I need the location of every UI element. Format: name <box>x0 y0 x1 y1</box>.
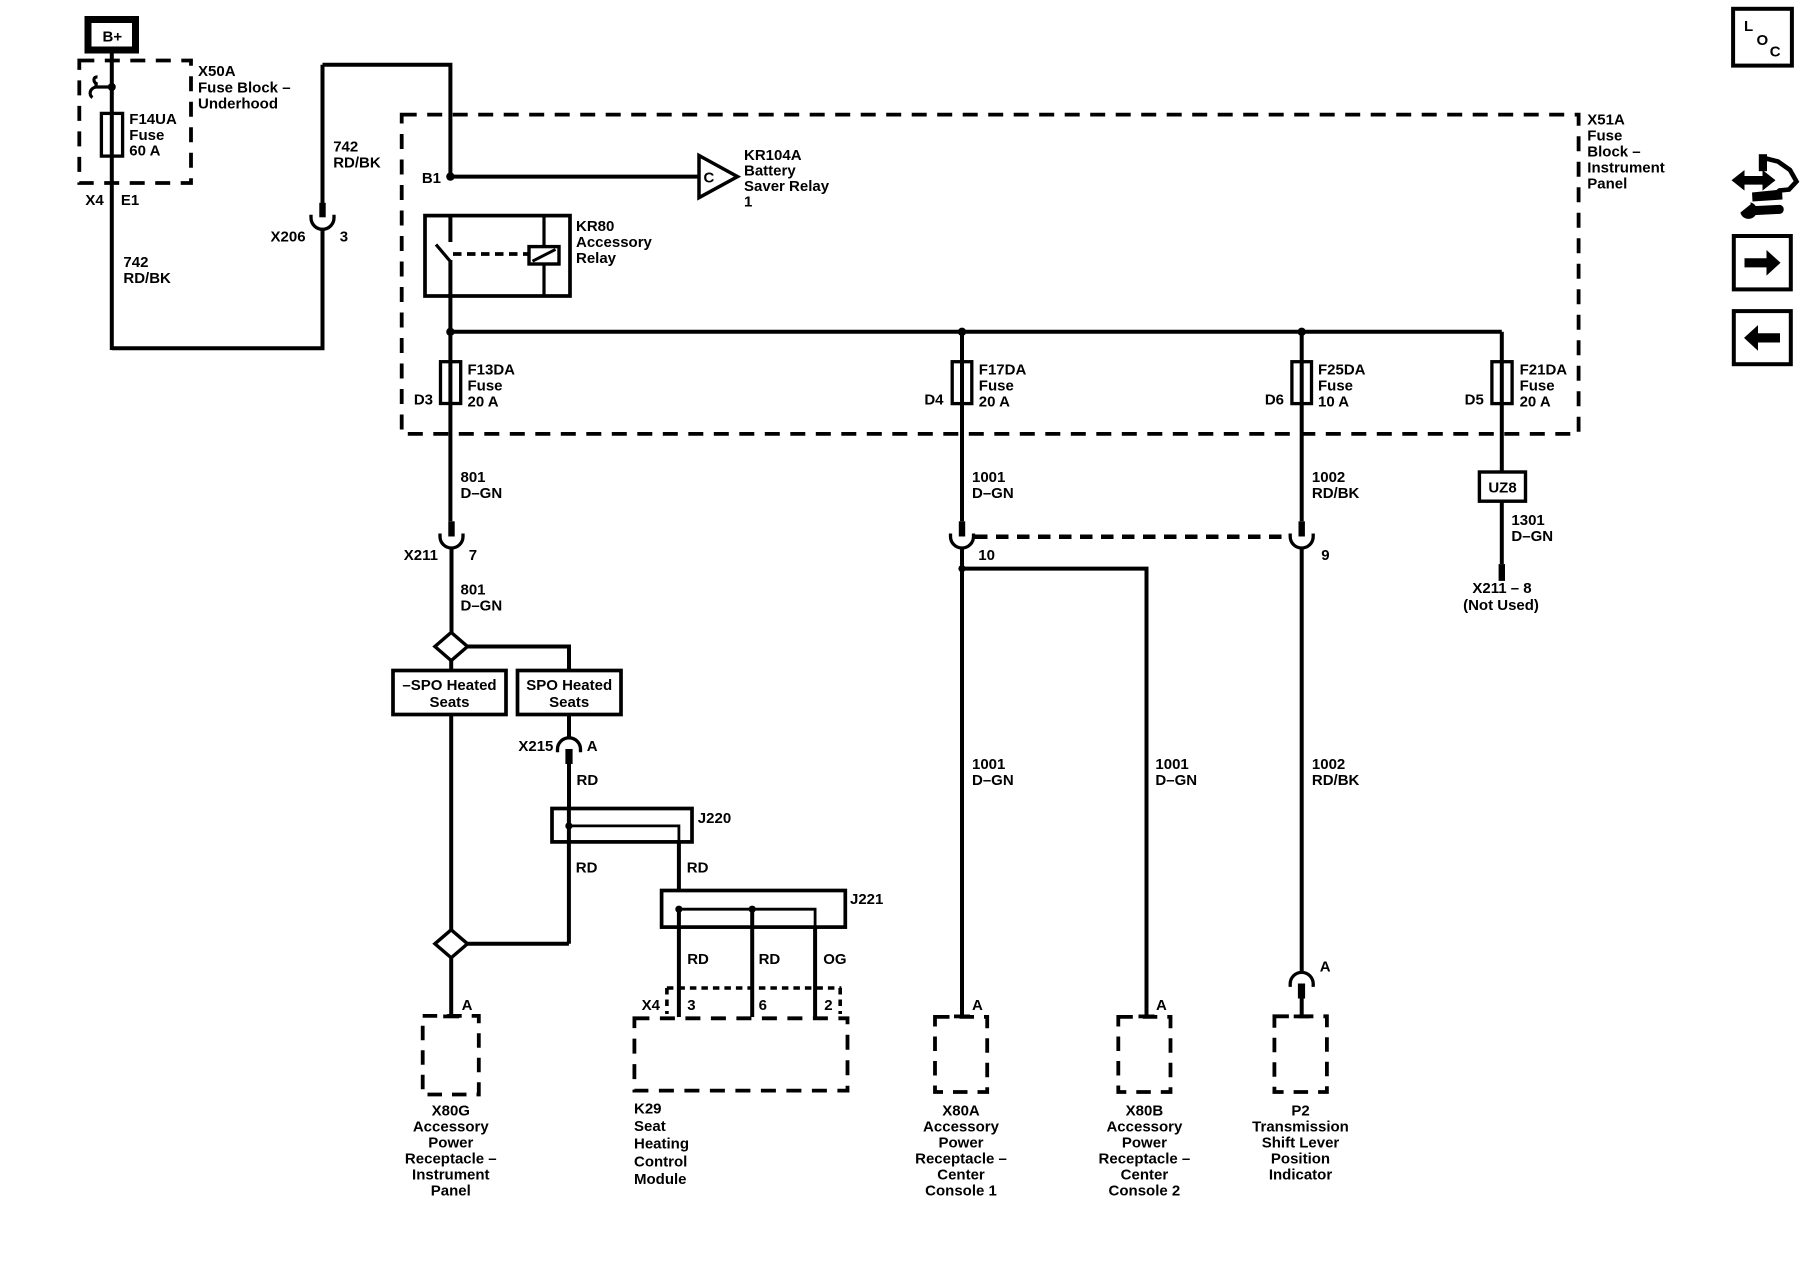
wire 1301 below UZ8 <box>1500 501 1504 564</box>
svg-text:X80B: X80B <box>1126 1102 1164 1119</box>
X80A label <box>915 1102 1007 1199</box>
junction at D3 feed <box>446 328 454 336</box>
svg-text:X206: X206 <box>271 228 306 245</box>
svg-text:Module: Module <box>634 1171 687 1188</box>
svg-text:801: 801 <box>461 469 486 486</box>
svg-text:Fuse: Fuse <box>1520 378 1555 395</box>
fuse F17DA <box>952 362 972 404</box>
svg-text:Fuse Block –: Fuse Block – <box>198 79 291 96</box>
wire 1002 RD/BK label (lower) <box>1312 756 1360 789</box>
svg-text:E1: E1 <box>121 192 139 209</box>
svg-text:Accessory: Accessory <box>923 1118 1000 1135</box>
fuse block X51A dashed box <box>402 115 1579 434</box>
svg-text:Power: Power <box>1122 1134 1167 1151</box>
svg-text:2: 2 <box>824 997 832 1014</box>
connector X4 pin row of K29 <box>667 988 842 1014</box>
splice diamond (lower) <box>435 930 468 958</box>
svg-text:Panel: Panel <box>1587 175 1627 192</box>
wire 1002 below connector <box>1300 548 1304 972</box>
svg-text:K29: K29 <box>634 1101 662 1118</box>
svg-text:D–GN: D–GN <box>461 598 503 615</box>
wire drop to fuse D4 <box>960 332 964 362</box>
svg-text:A: A <box>1156 997 1167 1014</box>
svg-text:1301: 1301 <box>1511 512 1544 529</box>
F17DA value label <box>979 362 1027 411</box>
svg-text:Power: Power <box>428 1134 473 1151</box>
wire 1001 below connector <box>960 548 964 1016</box>
F13DA value label <box>468 362 516 411</box>
wire OG J221 pin 2 <box>813 927 817 1017</box>
svg-text:1001: 1001 <box>972 469 1005 486</box>
connector X211 pin 9 <box>1290 521 1313 548</box>
svg-text:B+: B+ <box>103 29 123 46</box>
svg-text:Heating: Heating <box>634 1136 689 1153</box>
svg-text:Block –: Block – <box>1587 144 1640 161</box>
svg-text:F21DA: F21DA <box>1520 362 1568 379</box>
svg-text:1002: 1002 <box>1312 469 1345 486</box>
svg-text:B1: B1 <box>422 170 441 187</box>
wire 1002 RD/BK label (upper) <box>1312 469 1360 502</box>
K29 label <box>634 1101 689 1188</box>
svg-text:D5: D5 <box>1465 392 1484 409</box>
svg-text:J221: J221 <box>850 891 883 908</box>
wire diamond down <box>449 661 453 671</box>
svg-text:X211: X211 <box>404 547 438 564</box>
svg-text:Fuse: Fuse <box>468 378 503 395</box>
wire RD J221 pin 6 <box>750 909 754 1017</box>
fuse block X50A dashed box <box>79 61 191 184</box>
svg-text:Power: Power <box>938 1134 983 1151</box>
svg-text:20 A: 20 A <box>468 394 499 411</box>
svg-text:Relay: Relay <box>576 250 617 267</box>
svg-text:RD: RD <box>687 860 709 877</box>
LOC legend box <box>1733 9 1792 66</box>
svg-text:1: 1 <box>744 194 752 211</box>
X211-8 not used label <box>1463 580 1539 614</box>
off-page arrow C KR104A <box>699 156 738 198</box>
next page arrow box <box>1734 236 1791 289</box>
F14UA value label <box>129 111 177 159</box>
wire diamond to SPO option box <box>468 647 570 671</box>
connector X211 dashed tie line <box>975 535 1290 540</box>
svg-text:X215: X215 <box>518 738 553 755</box>
terminal bar at P2 <box>1294 1015 1310 1019</box>
svg-text:RD: RD <box>577 772 599 789</box>
wire RD from J220 right to J221 <box>677 842 681 891</box>
svg-text:RD/BK: RD/BK <box>123 270 171 287</box>
svg-text:Panel: Panel <box>431 1182 471 1199</box>
svg-text:1001: 1001 <box>1155 756 1188 773</box>
option box -SPO Heated Seats <box>393 671 506 715</box>
svg-text:F14UA: F14UA <box>129 111 177 128</box>
P2 label <box>1252 1102 1349 1183</box>
svg-text:3: 3 <box>687 997 695 1014</box>
wire RD to J220 <box>567 764 571 809</box>
junction at D4 feed <box>958 328 966 336</box>
svg-text:Instrument: Instrument <box>1587 159 1665 176</box>
svg-text:Shift Lever: Shift Lever <box>1262 1134 1340 1151</box>
svg-text:Center: Center <box>937 1166 985 1183</box>
svg-text:Seats: Seats <box>429 694 469 711</box>
wire drop to fuse D5 <box>1500 332 1504 362</box>
option UZ8 box <box>1479 472 1525 501</box>
terminal bar at X80A <box>954 1015 970 1019</box>
svg-text:F13DA: F13DA <box>468 362 516 379</box>
wire B+ down through fuse block <box>110 52 114 350</box>
B+ power terminal box <box>88 20 136 51</box>
terminal bar at X80G <box>443 1015 459 1019</box>
svg-text:Accessory: Accessory <box>413 1118 490 1135</box>
wire 1002 from fuse D6 <box>1300 404 1304 522</box>
relay KR80 switch contact <box>436 216 450 296</box>
svg-text:D–GN: D–GN <box>972 485 1014 502</box>
svg-text:F25DA: F25DA <box>1318 362 1366 379</box>
wire from fuse D5 to UZ8 <box>1500 404 1504 472</box>
svg-text:D–GN: D–GN <box>461 485 503 502</box>
option box SPO Heated Seats <box>518 671 622 715</box>
junction at X80B branch <box>958 565 965 572</box>
wire 1001 from fuse D4 <box>960 404 964 522</box>
connector X211 pin 7 <box>440 521 463 548</box>
svg-text:Indicator: Indicator <box>1269 1166 1333 1183</box>
svg-text:Fuse: Fuse <box>129 127 164 144</box>
X50A label <box>198 63 291 113</box>
svg-text:20 A: 20 A <box>1520 394 1551 411</box>
node B1 <box>446 172 454 180</box>
svg-text:J220: J220 <box>698 810 731 827</box>
wire B1 to battery saver relay <box>450 175 699 179</box>
svg-text:P2: P2 <box>1291 1102 1309 1119</box>
svg-text:10 A: 10 A <box>1318 394 1349 411</box>
F25DA value label <box>1318 362 1366 411</box>
svg-text:X4: X4 <box>85 192 104 209</box>
svg-text:F17DA: F17DA <box>979 362 1027 379</box>
svg-text:C: C <box>1770 44 1781 61</box>
fuse F13DA <box>441 362 461 404</box>
svg-text:A: A <box>972 997 983 1014</box>
wire -SPO box down to lower splice <box>449 715 453 930</box>
junction at D6 feed <box>1298 328 1306 336</box>
svg-text:A: A <box>462 997 473 1014</box>
receptacle X80G dashed box <box>423 1016 479 1095</box>
svg-text:L: L <box>1744 18 1753 35</box>
relay KR80 mechanical link (dashed) <box>453 252 529 256</box>
svg-text:Accessory: Accessory <box>1106 1118 1183 1135</box>
svg-text:10: 10 <box>978 547 995 564</box>
svg-text:Seat: Seat <box>634 1118 666 1135</box>
connector X206 pin 3 <box>311 65 334 230</box>
indicator P2 dashed box <box>1274 1016 1327 1092</box>
wire 801 D-GN label (lower) <box>461 582 503 615</box>
wire bottom run to X206 <box>112 229 323 348</box>
KR80 label <box>576 218 653 267</box>
terminal bar at X80B <box>1139 1015 1155 1019</box>
fuse F25DA <box>1292 362 1312 404</box>
svg-text:X4: X4 <box>642 997 661 1014</box>
svg-text:7: 7 <box>469 547 477 564</box>
fuse F14UA <box>101 113 122 156</box>
wire RD from J220 left <box>567 842 571 944</box>
svg-text:Console 2: Console 2 <box>1109 1182 1181 1199</box>
svg-text:Saver Relay: Saver Relay <box>744 178 830 195</box>
svg-text:O: O <box>1757 32 1769 49</box>
svg-text:Accessory: Accessory <box>576 234 653 251</box>
fuse F21DA <box>1492 362 1512 404</box>
splice pack J221 <box>662 891 846 928</box>
svg-text:1001: 1001 <box>972 756 1005 773</box>
wire lower splice to X80G <box>449 958 453 1016</box>
svg-text:RD/BK: RD/BK <box>1312 772 1360 789</box>
svg-text:D–GN: D–GN <box>1511 528 1553 545</box>
wire 801 below connector <box>450 548 454 632</box>
splice pack J220 <box>552 809 692 842</box>
X51A label <box>1587 112 1665 193</box>
receptacle X80A dashed box <box>935 1017 987 1092</box>
splice diamond (upper) <box>435 632 468 660</box>
svg-text:D4: D4 <box>924 392 944 409</box>
svg-text:RD: RD <box>759 951 781 968</box>
svg-text:60 A: 60 A <box>129 143 160 160</box>
svg-text:Control: Control <box>634 1153 687 1170</box>
svg-text:UZ8: UZ8 <box>1488 479 1516 496</box>
svg-text:SPO Heated: SPO Heated <box>526 677 612 694</box>
svg-text:20 A: 20 A <box>979 394 1010 411</box>
wire 1001 D-GN label (X80A) <box>972 756 1014 789</box>
svg-text:Seats: Seats <box>549 694 589 711</box>
wire top run to B1 <box>323 65 451 177</box>
svg-text:Center: Center <box>1121 1166 1169 1183</box>
svg-text:Receptacle –: Receptacle – <box>1099 1150 1191 1167</box>
svg-text:RD: RD <box>687 951 709 968</box>
wire RD J221 pin 3 <box>677 909 681 1017</box>
wire 742 RD/BK label (left) <box>123 254 171 287</box>
receptacle X80B dashed box <box>1118 1017 1170 1092</box>
wire 1001 D-GN label (X80B) <box>1155 756 1197 789</box>
svg-text:RD/BK: RD/BK <box>1312 485 1360 502</box>
svg-text:(Not Used): (Not Used) <box>1463 597 1539 614</box>
svg-text:X51A: X51A <box>1587 112 1625 129</box>
svg-text:–SPO Heated: –SPO Heated <box>402 677 496 694</box>
svg-text:Underhood: Underhood <box>198 96 278 113</box>
wire 801 from fuse D3 <box>448 404 452 522</box>
svg-text:1002: 1002 <box>1312 756 1345 773</box>
F21DA value label <box>1520 362 1568 411</box>
connector X211 pin 10 <box>951 521 974 548</box>
wire branch to X80B <box>962 569 1147 1016</box>
svg-text:D3: D3 <box>414 392 433 409</box>
X80B label <box>1099 1102 1191 1199</box>
fusible link symbol <box>90 77 116 98</box>
svg-text:C: C <box>704 170 715 187</box>
svg-text:A: A <box>587 738 598 755</box>
svg-text:X80G: X80G <box>432 1102 470 1119</box>
relay KR80 box <box>425 216 570 296</box>
svg-text:Fuse: Fuse <box>1318 378 1353 395</box>
relay KR80 coil <box>529 247 559 264</box>
svg-text:D–GN: D–GN <box>972 772 1014 789</box>
harness routing icon (arrows and wrench) <box>1732 154 1797 219</box>
svg-text:801: 801 <box>461 582 486 599</box>
connector X215 pin A <box>558 715 581 765</box>
terminal X211-8 stub <box>1499 564 1505 581</box>
svg-text:Receptacle –: Receptacle – <box>915 1150 1007 1167</box>
svg-text:X80A: X80A <box>942 1102 980 1119</box>
wire 801 D-GN label (upper) <box>461 469 503 502</box>
wire 742 RD/BK label (upper) <box>333 138 381 171</box>
svg-text:Receptacle –: Receptacle – <box>405 1150 497 1167</box>
svg-text:Transmission: Transmission <box>1252 1118 1349 1135</box>
wire drop to fuse D6 <box>1300 332 1304 362</box>
wire 1001 D-GN label (upper) <box>972 469 1014 502</box>
module K29 dashed box <box>634 1018 847 1090</box>
svg-text:6: 6 <box>759 997 767 1014</box>
svg-text:X211 – 8: X211 – 8 <box>1472 580 1531 597</box>
svg-text:RD/BK: RD/BK <box>333 155 381 172</box>
svg-text:D–GN: D–GN <box>1155 772 1197 789</box>
svg-text:Position: Position <box>1271 1150 1330 1167</box>
svg-text:X50A: X50A <box>198 63 236 80</box>
svg-text:KR104A: KR104A <box>744 147 802 164</box>
svg-text:3: 3 <box>340 228 348 245</box>
wire J220 branch to lower splice diamond <box>468 942 569 946</box>
svg-text:Console 1: Console 1 <box>925 1182 997 1199</box>
svg-text:742: 742 <box>333 138 358 155</box>
svg-text:Fuse: Fuse <box>979 378 1014 395</box>
connector pin A at P2 <box>1290 972 1313 1015</box>
svg-text:A: A <box>1320 958 1331 975</box>
svg-text:9: 9 <box>1321 547 1329 564</box>
previous page arrow box <box>1734 311 1791 364</box>
wire 1301 D-GN label <box>1511 512 1553 545</box>
svg-text:RD: RD <box>576 860 598 877</box>
svg-text:D6: D6 <box>1265 392 1284 409</box>
svg-text:Fuse: Fuse <box>1587 128 1622 145</box>
bus wire across fuse block <box>450 330 1501 334</box>
svg-text:OG: OG <box>823 951 846 968</box>
X80G label <box>405 1102 497 1199</box>
KR104A label <box>744 147 830 211</box>
svg-text:Battery: Battery <box>744 163 796 180</box>
svg-text:Instrument: Instrument <box>412 1166 490 1183</box>
wire relay output bus <box>448 296 452 362</box>
svg-text:KR80: KR80 <box>576 218 614 235</box>
svg-text:742: 742 <box>123 254 148 271</box>
